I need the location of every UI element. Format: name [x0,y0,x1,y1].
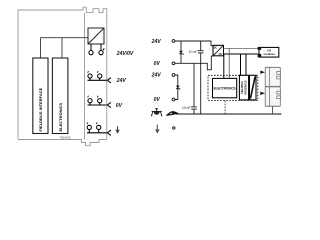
svg-text:0V: 0V [154,97,161,103]
I/O modules box [258,47,279,57]
DIN rail cross-section symbol [151,108,162,115]
svg-text:24V: 24V [151,73,162,79]
system bus 0V line [224,53,258,55]
right schematic: supply terminal 24V (system) [172,40,175,43]
data bus arrow 1 [260,71,265,74]
svg-text:ELECTRONICS: ELECTRONICS [58,103,63,132]
svg-text:24V: 24V [151,39,162,45]
supply terminal 24V (field) [172,74,175,77]
small circle marker [173,127,175,129]
I/O module symbol 1 [265,67,280,87]
svg-text:0V: 0V [116,103,123,109]
TVS diode across system supply [180,41,182,63]
module earth drop [272,107,274,115]
svg-text:FIELDBUS INTERFACE: FIELDBUS INTERFACE [38,87,43,131]
svg-text:DC: DC [214,47,218,50]
fieldbus connector diagonal [250,75,257,100]
module outline (coupler housing, left diagram) [18,7,107,146]
drops to fieldbus interface [240,54,242,75]
svg-text:24V/0V: 24V/0V [116,51,134,57]
rail (earth) line [176,113,282,115]
svg-text:ELECTRONICS: ELECTRONICS [214,86,237,90]
Y-capacitor from 24V to rail [198,41,204,114]
svg-text:750-602: 750-602 [60,136,71,140]
drop to electronics (5V) [228,48,230,78]
svg-text:10 nF: 10 nF [189,50,199,54]
supply terminal 0V (system) [172,62,175,65]
rail arrow (right) [155,125,160,134]
svg-text:DC: DC [219,53,223,56]
data bus arrow 2 [260,92,265,95]
wire: blocks to power supply [41,38,89,58]
Y-capacitor from 0V to rail [191,63,197,114]
wire 0V system rail [175,56,213,70]
clamp row 4 (earth to rail) [87,122,111,135]
svg-text:24V: 24V [116,78,127,84]
field supply TVS branch [175,75,178,100]
supply legs to clamps [91,44,101,51]
coupler dashed box [208,75,258,100]
supply terminal 0V (field) [172,98,175,101]
DC/DC converter [213,45,224,56]
wire 24V system rail [175,41,213,46]
fieldbus interface box (schematic) [239,75,248,100]
svg-text:INTERFACE: INTERFACE [244,80,247,95]
I/O module symbol 2 [265,87,280,107]
electronics block [52,58,68,134]
rail arrow (left) [115,126,120,134]
rail contact wedge [166,111,179,116]
electronics box (schematic) [213,78,237,97]
svg-text:0V: 0V [154,61,161,67]
dashed earth drop from coupler [224,101,226,115]
clamp row 3 (0V jumper contact) [88,96,111,108]
drop to electronics (0V) [223,54,225,78]
fieldbus interface block [33,58,48,134]
clamp row 2 (24V jumper contact) [88,71,111,83]
svg-text:modules: modules [264,52,276,56]
system bus 5V line [224,47,258,49]
svg-text:10 nF: 10 nF [182,106,192,110]
clamp row 1 (24V/0V input) [89,48,104,54]
power supply square (left) [88,28,104,44]
